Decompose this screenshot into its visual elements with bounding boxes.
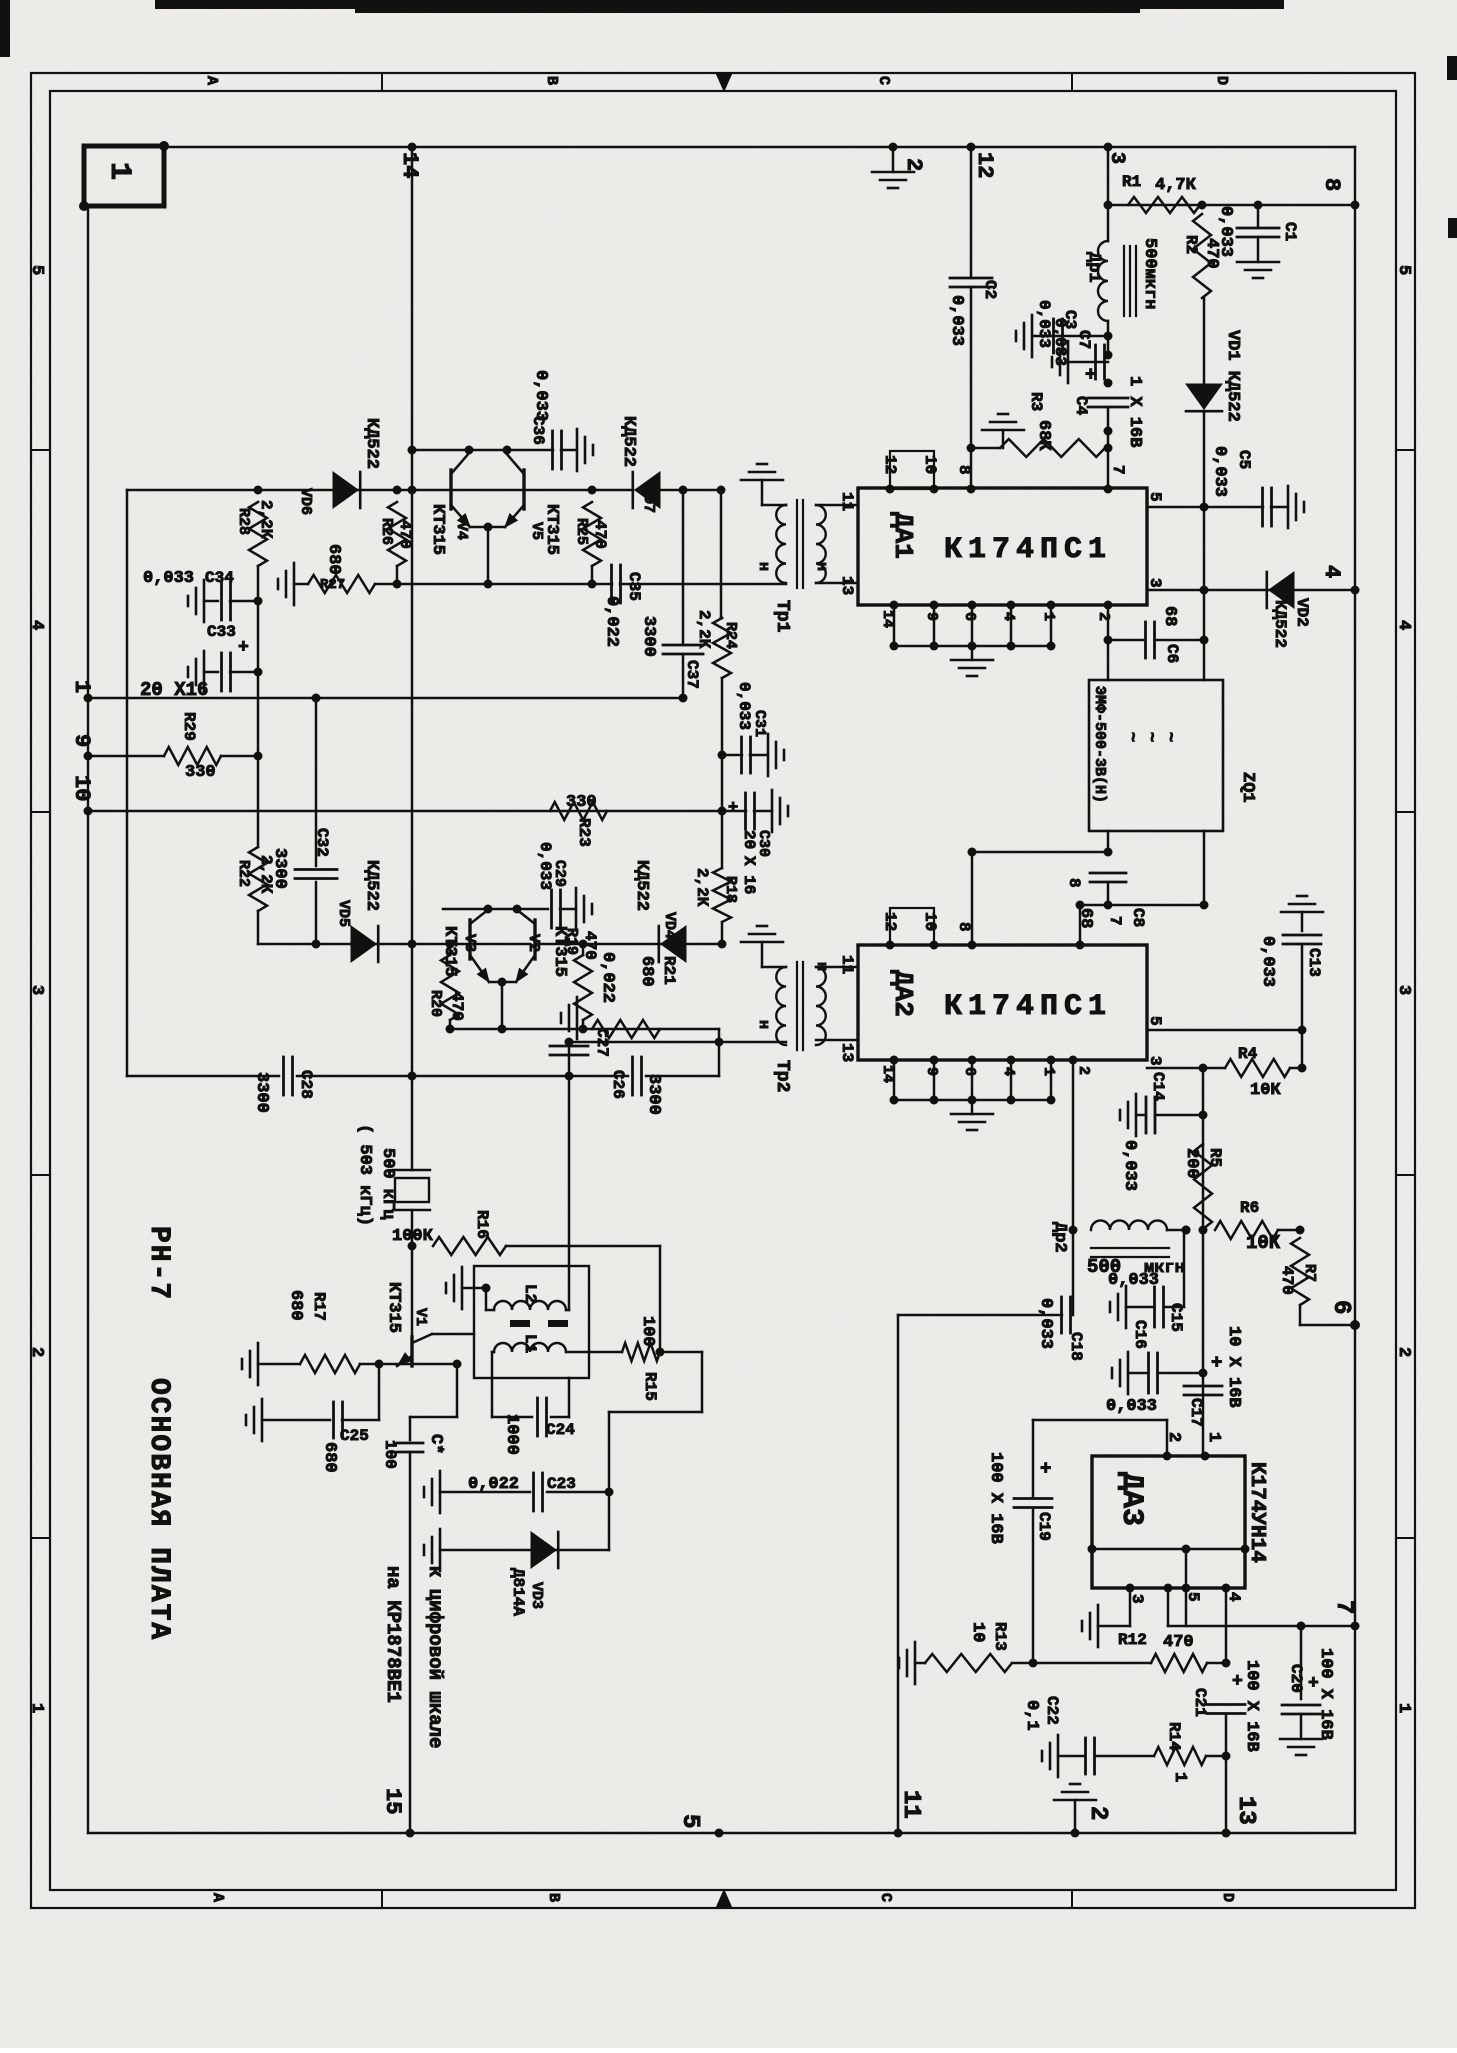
svg-text:C4: C4: [1072, 396, 1090, 416]
svg-text:12: 12: [881, 912, 899, 931]
svg-text:470: 470: [591, 520, 609, 549]
svg-text:R20: R20: [427, 990, 444, 1017]
svg-text:РН-7: РН-7: [143, 1226, 174, 1301]
svg-text:C19: C19: [1035, 1512, 1053, 1541]
svg-text:R13: R13: [991, 1622, 1009, 1651]
svg-text:н: н: [755, 562, 772, 571]
svg-text:0,033: 0,033: [1035, 300, 1053, 348]
svg-text:C33: C33: [207, 623, 236, 641]
svg-text:R14: R14: [1165, 1722, 1183, 1751]
svg-text:+: +: [1211, 1352, 1222, 1374]
svg-text:0,033: 0,033: [735, 682, 753, 730]
svg-text:10: 10: [921, 912, 939, 931]
svg-text:6: 6: [961, 1067, 978, 1076]
svg-text:7: 7: [1106, 916, 1124, 926]
svg-text:R29: R29: [180, 712, 198, 741]
svg-text:470: 470: [1163, 1633, 1194, 1652]
svg-text:10: 10: [921, 455, 939, 474]
svg-text:3: 3: [1146, 1056, 1164, 1066]
svg-text:0,033: 0,033: [1216, 206, 1235, 257]
svg-text:R19: R19: [563, 928, 580, 955]
svg-text:C7: C7: [1075, 330, 1093, 349]
svg-text:8: 8: [955, 922, 973, 932]
svg-text:R12: R12: [1118, 1631, 1147, 1649]
svg-text:7: 7: [1109, 465, 1127, 475]
svg-text:C23: C23: [547, 1475, 576, 1493]
svg-text:К174ПС1: К174ПС1: [944, 990, 1112, 1024]
svg-text:14: 14: [397, 152, 422, 178]
svg-text:4: 4: [1319, 565, 1344, 578]
svg-text:R7: R7: [1301, 1264, 1318, 1282]
svg-text:R23: R23: [575, 818, 593, 847]
svg-text:КТ315: КТ315: [384, 1282, 403, 1333]
svg-text:~: ~: [1122, 732, 1141, 742]
svg-text:A: A: [203, 76, 220, 85]
svg-text:5: 5: [1394, 265, 1413, 275]
svg-text:1: 1: [69, 680, 94, 693]
svg-text:D: D: [1219, 1893, 1236, 1902]
svg-text:R15: R15: [641, 1372, 659, 1401]
svg-text:R6: R6: [1240, 1199, 1259, 1217]
svg-text:470: 470: [1278, 1266, 1296, 1295]
svg-text:100 Х 16В: 100 Х 16В: [986, 1452, 1005, 1544]
svg-text:2,2К: 2,2К: [257, 855, 275, 894]
svg-text:20 Х16: 20 Х16: [140, 679, 208, 701]
svg-text:3300: 3300: [644, 1074, 663, 1115]
svg-text:КТ315: КТ315: [428, 504, 447, 555]
svg-text:на КР1878ВЕ1: на КР1878ВЕ1: [382, 1566, 404, 1703]
svg-text:0,022: 0,022: [602, 596, 621, 647]
svg-text:R2: R2: [1182, 235, 1200, 254]
svg-text:C28: C28: [297, 1070, 315, 1099]
svg-text:+: +: [728, 799, 738, 818]
svg-text:10К: 10К: [1246, 1232, 1281, 1254]
svg-text:5: 5: [676, 1814, 703, 1828]
svg-text:1: 1: [1040, 612, 1057, 621]
svg-text:9: 9: [923, 612, 940, 621]
svg-text:470: 470: [396, 520, 414, 549]
svg-text:V5: V5: [528, 522, 545, 540]
svg-text:8: 8: [955, 465, 973, 475]
svg-text:V1: V1: [412, 1308, 429, 1326]
svg-text:C15: C15: [1167, 1303, 1185, 1332]
svg-text:C6: C6: [1163, 644, 1181, 663]
svg-text:R1: R1: [1122, 173, 1141, 191]
svg-text:2: 2: [1394, 1347, 1413, 1357]
svg-text:~: ~: [1141, 732, 1160, 742]
svg-text:C31: C31: [751, 710, 768, 737]
svg-text:к цифровой шкале: к цифровой шкале: [424, 1566, 446, 1748]
svg-text:1: 1: [1204, 1432, 1223, 1442]
svg-text:100 Х 16В: 100 Х 16В: [1316, 1648, 1335, 1740]
svg-text:2,2К: 2,2К: [693, 868, 711, 907]
svg-text:15: 15: [380, 1788, 405, 1814]
svg-text:0,033: 0,033: [1258, 936, 1277, 987]
svg-text:680: 680: [324, 544, 343, 575]
svg-text:R18: R18: [722, 876, 739, 903]
svg-text:14: 14: [879, 1065, 896, 1083]
svg-text:КД522: КД522: [1271, 600, 1289, 648]
svg-text:A: A: [209, 1893, 226, 1902]
svg-text:C14: C14: [1149, 1072, 1167, 1101]
svg-text:C37: C37: [683, 660, 701, 689]
svg-text:КД522: КД522: [632, 860, 651, 911]
svg-text:VD2: VD2: [1293, 598, 1311, 627]
svg-text:+: +: [1040, 1458, 1051, 1480]
svg-text:C34: C34: [205, 569, 234, 587]
svg-text:12: 12: [881, 455, 899, 474]
svg-text:10: 10: [69, 775, 94, 801]
svg-text:330: 330: [185, 763, 216, 782]
svg-text:13: 13: [1232, 1796, 1259, 1825]
svg-text:C24: C24: [546, 1421, 575, 1439]
svg-text:н: н: [813, 562, 830, 571]
svg-text:КД522: КД522: [362, 418, 381, 469]
svg-text:Др2: Др2: [1050, 1222, 1069, 1253]
svg-text:10К: 10К: [1250, 1081, 1281, 1100]
svg-text:3: 3: [1394, 985, 1413, 995]
svg-text:0,022: 0,022: [468, 1475, 519, 1494]
svg-text:VD1 КД522: VD1 КД522: [1223, 330, 1242, 422]
svg-text:C20: C20: [1287, 1664, 1305, 1693]
svg-text:0,033: 0,033: [143, 569, 194, 588]
svg-text:( 503 кГц): ( 503 кГц): [355, 1124, 374, 1226]
svg-text:C22: C22: [1043, 1696, 1061, 1725]
svg-text:R3: R3: [1027, 392, 1045, 411]
svg-text:C35: C35: [625, 572, 643, 601]
svg-text:C13: C13: [1305, 948, 1323, 977]
svg-text:3300: 3300: [639, 616, 658, 657]
svg-text:1: 1: [102, 162, 136, 180]
svg-text:68: 68: [1160, 606, 1179, 626]
svg-text:100: 100: [381, 1440, 399, 1469]
svg-text:C26: C26: [609, 1070, 627, 1099]
svg-text:7: 7: [1330, 1600, 1357, 1614]
svg-text:C: C: [877, 1893, 894, 1902]
svg-text:R26: R26: [378, 518, 395, 545]
svg-text:11: 11: [838, 955, 856, 974]
svg-text:V3: V3: [461, 934, 478, 952]
svg-text:Тр1: Тр1: [772, 600, 792, 633]
svg-text:100 Х 16В: 100 Х 16В: [1242, 1660, 1261, 1752]
svg-text:1 Х 16В: 1 Х 16В: [1125, 376, 1144, 447]
svg-text:C1: C1: [1281, 222, 1299, 241]
svg-text:2: 2: [27, 1347, 46, 1357]
svg-text:1: 1: [1394, 1703, 1413, 1713]
svg-text:R27: R27: [320, 577, 345, 593]
svg-text:2: 2: [1075, 1066, 1092, 1075]
svg-text:3: 3: [27, 985, 46, 995]
svg-text:100: 100: [638, 1316, 657, 1347]
svg-text:0,033: 0,033: [1210, 446, 1229, 497]
svg-text:2: 2: [1095, 612, 1112, 621]
svg-text:C: C: [875, 76, 892, 85]
svg-text:0,033: 0,033: [947, 295, 966, 346]
svg-text:C21: C21: [1191, 1688, 1209, 1717]
svg-text:11: 11: [838, 492, 856, 511]
svg-text:R24: R24: [722, 622, 739, 649]
svg-text:0,022: 0,022: [598, 952, 617, 1003]
svg-text:200: 200: [1182, 1148, 1201, 1179]
svg-text:C25: C25: [340, 1427, 369, 1445]
svg-text:VD3: VD3: [528, 1582, 545, 1609]
svg-text:4: 4: [1000, 1067, 1017, 1076]
svg-text:14: 14: [879, 610, 896, 628]
svg-text:+: +: [238, 638, 249, 658]
svg-text:ZQ1: ZQ1: [1238, 772, 1257, 803]
svg-text:10 Х 16В: 10 Х 16В: [1224, 1326, 1243, 1408]
svg-text:5: 5: [27, 265, 46, 275]
svg-text:C29: C29: [551, 860, 568, 887]
svg-text:3: 3: [1105, 152, 1128, 164]
svg-text:VD6: VD6: [297, 488, 314, 515]
svg-text:2,2К: 2,2К: [257, 500, 275, 539]
svg-text:+: +: [1232, 1672, 1243, 1692]
svg-text:2: 2: [901, 158, 926, 171]
svg-text:1: 1: [27, 1703, 46, 1713]
svg-text:R16: R16: [473, 1210, 491, 1239]
svg-text:C5: C5: [1235, 450, 1253, 469]
svg-text:680: 680: [320, 1442, 339, 1473]
svg-text:C32: C32: [313, 828, 331, 857]
svg-text:680: 680: [637, 956, 656, 987]
svg-text:68К: 68К: [1034, 420, 1053, 451]
svg-text:13: 13: [838, 576, 856, 595]
svg-text:470: 470: [581, 931, 599, 960]
svg-text:VD4: VD4: [661, 912, 678, 939]
svg-text:500мкгн: 500мкгн: [1140, 238, 1159, 309]
svg-text:R22: R22: [235, 860, 252, 887]
svg-text:0,033: 0,033: [1106, 1397, 1157, 1416]
svg-text:Х 16: Х 16: [740, 856, 758, 894]
svg-text:КД522: КД522: [362, 860, 381, 911]
svg-text:0,033: 0,033: [531, 370, 550, 421]
svg-text:100К: 100К: [392, 1227, 434, 1246]
svg-text:Др1: Др1: [1084, 252, 1103, 283]
svg-text:4: 4: [1000, 612, 1017, 621]
svg-text:4: 4: [27, 620, 46, 630]
svg-text:13: 13: [838, 1043, 856, 1062]
svg-text:C8: C8: [1129, 908, 1147, 927]
svg-text:0,033: 0,033: [1108, 1271, 1159, 1290]
svg-text:C2: C2: [981, 280, 999, 299]
svg-text:6: 6: [961, 612, 978, 621]
svg-text:4,7К: 4,7К: [1155, 176, 1197, 195]
svg-text:B: B: [543, 76, 560, 85]
svg-text:9: 9: [923, 1067, 940, 1076]
svg-text:R21: R21: [660, 956, 678, 985]
svg-text:330: 330: [566, 793, 597, 812]
svg-text:R4: R4: [1238, 1045, 1258, 1063]
svg-text:C18: C18: [1067, 1332, 1085, 1361]
svg-text:~: ~: [1160, 732, 1179, 742]
svg-text:R25: R25: [573, 518, 590, 545]
svg-text:Тр2: Тр2: [772, 1060, 792, 1092]
svg-text:6: 6: [1327, 1300, 1354, 1314]
svg-text:н: н: [813, 962, 830, 971]
svg-text:C27: C27: [593, 1028, 611, 1057]
svg-text:ДА1: ДА1: [888, 512, 918, 559]
svg-text:12: 12: [972, 152, 997, 178]
svg-text:680: 680: [286, 1290, 305, 1321]
svg-text:0,033: 0,033: [1120, 1140, 1139, 1191]
svg-text:1: 1: [1040, 1067, 1057, 1076]
svg-text:R17: R17: [310, 1292, 328, 1321]
svg-text:D: D: [1213, 76, 1230, 85]
svg-text:500 кГц: 500 кГц: [378, 1148, 397, 1220]
svg-text:V4: V4: [453, 522, 470, 540]
svg-text:0,1: 0,1: [1022, 1700, 1041, 1731]
svg-text:1: 1: [1170, 1772, 1189, 1782]
svg-text:11: 11: [897, 1790, 924, 1819]
svg-text:C17: C17: [1187, 1398, 1205, 1427]
svg-text:0,033: 0,033: [1036, 1298, 1055, 1349]
svg-text:ОСНОВНАЯ ПЛАТА: ОСНОВНАЯ ПЛАТА: [143, 1378, 174, 1641]
svg-text:2,2К: 2,2К: [695, 610, 713, 649]
svg-text:8: 8: [1319, 178, 1344, 191]
svg-text:470: 470: [448, 992, 466, 1021]
svg-text:L1: L1: [521, 1334, 539, 1353]
svg-text:4: 4: [1225, 1592, 1243, 1602]
svg-text:R28: R28: [235, 508, 252, 535]
svg-text:н: н: [755, 1020, 772, 1029]
svg-text:К174ПС1: К174ПС1: [944, 533, 1112, 567]
svg-text:1000: 1000: [502, 1414, 521, 1455]
svg-text:ДА3: ДА3: [1114, 1472, 1148, 1526]
svg-text:2: 2: [1084, 1806, 1111, 1820]
svg-text:+: +: [1085, 364, 1096, 386]
svg-text:C*: C*: [426, 1434, 445, 1454]
svg-text:КД522: КД522: [619, 416, 638, 467]
svg-text:C3: C3: [1061, 310, 1079, 329]
svg-text:9: 9: [69, 734, 94, 747]
svg-text:C16: C16: [1131, 1320, 1149, 1349]
svg-text:10: 10: [968, 1622, 987, 1642]
svg-text:C30: C30: [755, 830, 772, 857]
svg-text:ДА2: ДА2: [888, 970, 918, 1017]
svg-text:5: 5: [1146, 1016, 1164, 1026]
svg-text:B: B: [545, 1893, 562, 1902]
svg-text:Д814А: Д814А: [509, 1568, 527, 1616]
svg-text:L2: L2: [521, 1284, 539, 1303]
svg-text:8: 8: [1065, 878, 1083, 888]
svg-text:R5: R5: [1206, 1148, 1224, 1167]
svg-text:ЭМФ-500-3В(Н): ЭМФ-500-3В(Н): [1091, 686, 1108, 803]
svg-text:VD5: VD5: [335, 900, 352, 927]
svg-text:4: 4: [1394, 620, 1413, 630]
svg-text:3300: 3300: [252, 1072, 271, 1113]
svg-text:VD7: VD7: [640, 486, 657, 513]
